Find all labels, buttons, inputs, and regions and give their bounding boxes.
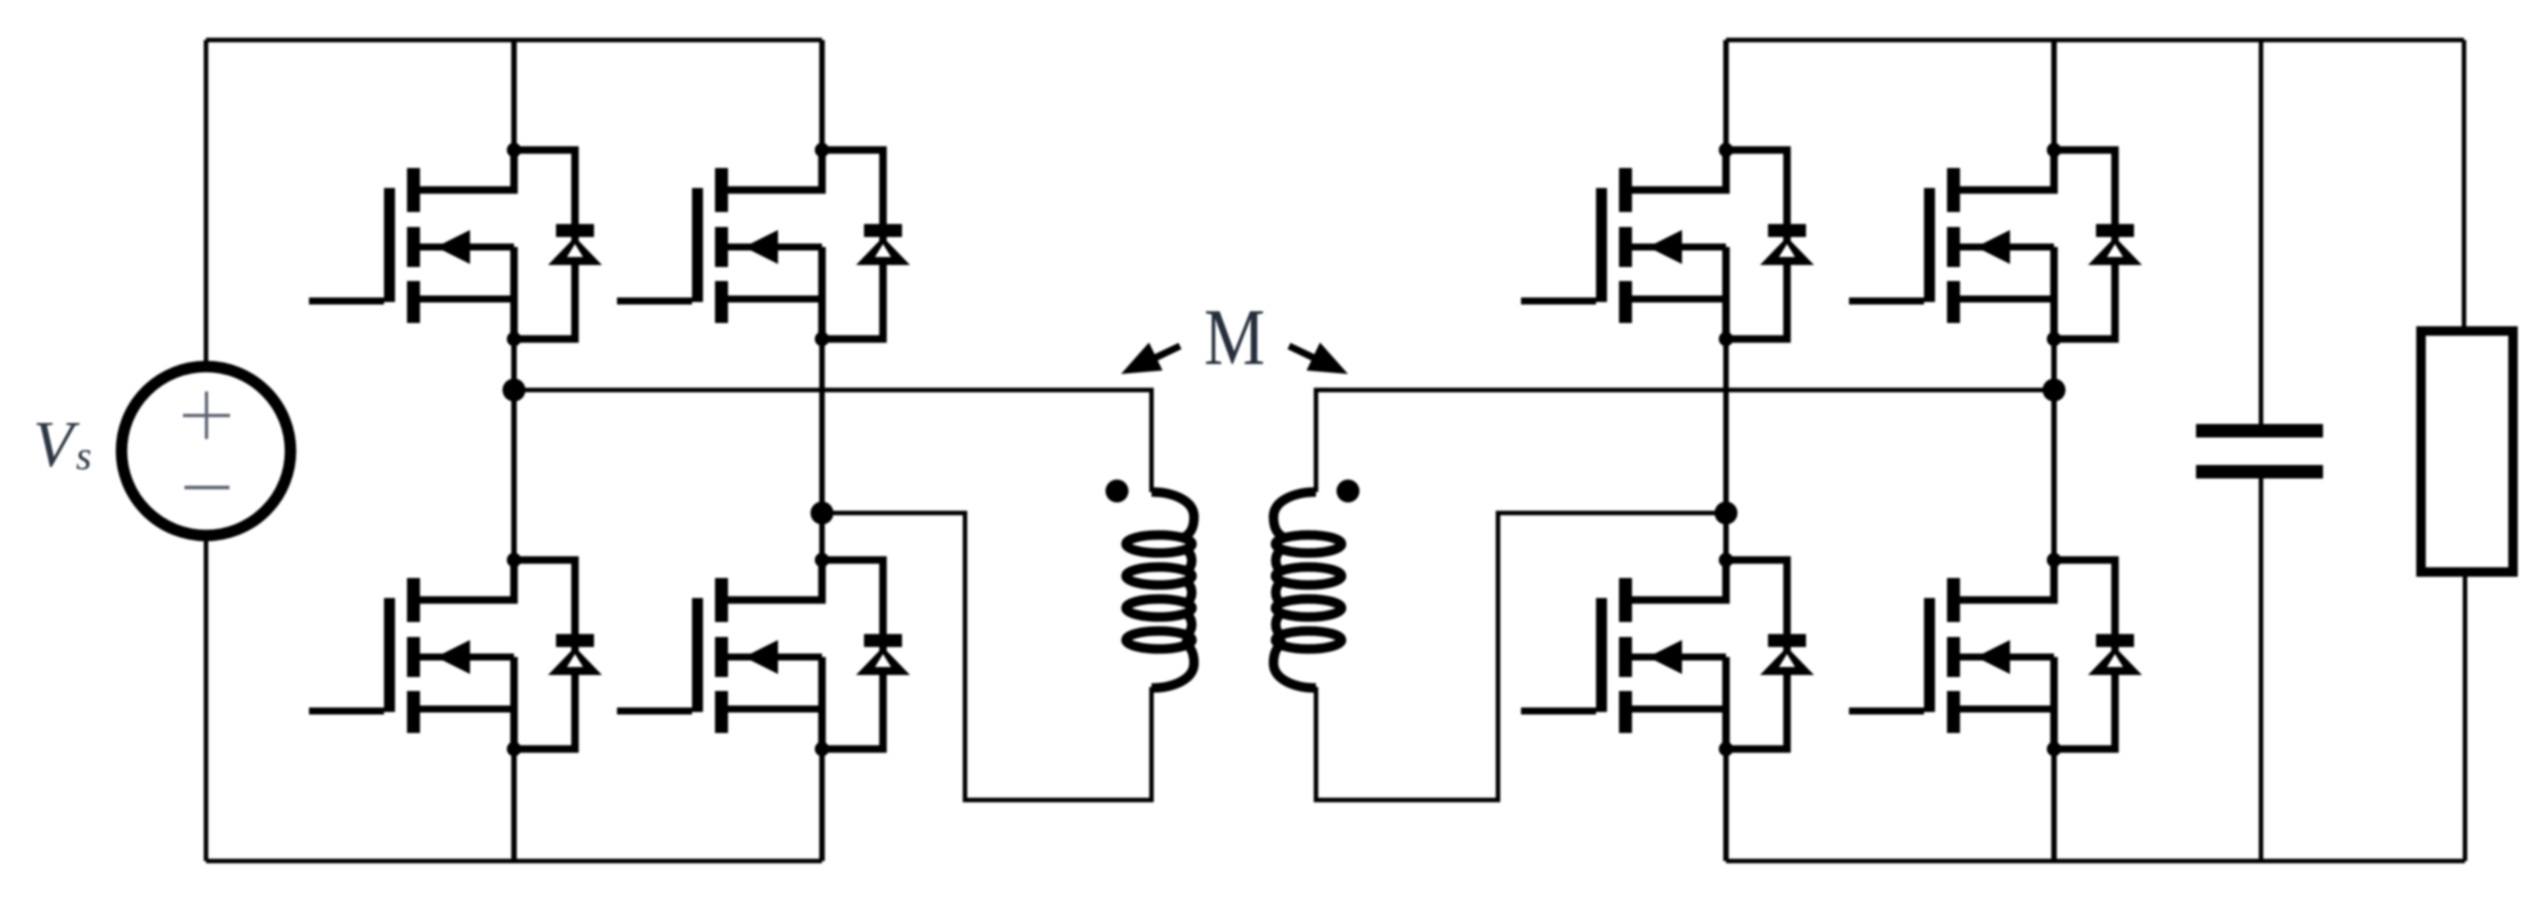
plus sign [183, 392, 230, 440]
transistor Q5 (right bridge, top-left) with body diode D5 [1521, 143, 1814, 346]
wire leg4 bottom stub [2051, 749, 2057, 861]
wire capacitor top stub [2259, 40, 2264, 424]
polarity dot primary [1106, 480, 1129, 503]
transistor Q6 (right bridge, top-right) with body diode D6 [1849, 143, 2142, 346]
polarity dot secondary [1337, 480, 1360, 503]
transistor Q7 (right bridge, bottom-left) with body diode D7 [1521, 553, 1814, 756]
inductor L1 (primary coil) [1126, 492, 1194, 688]
svg-text:M: M [1204, 294, 1265, 382]
transistor Q4 (left bridge, bottom-right) with body diode D4 [617, 553, 910, 756]
wire leg3 mid [1723, 339, 1729, 560]
wire right top rail [1726, 38, 2464, 43]
wire node A to primary top [514, 390, 1152, 492]
wire node B to primary bottom [822, 513, 1152, 800]
wire load top stub [2462, 40, 2467, 331]
wire left bottom rail [206, 859, 822, 864]
capacitor C (output filter) top plate [2196, 424, 2323, 438]
transistor Q3 (left bridge, bottom-left) with body diode D3 [309, 553, 602, 756]
wire leg1 mid [511, 339, 517, 560]
wire capacitor bottom stub [2259, 478, 2264, 861]
wire leg4 top stub [2051, 40, 2057, 150]
wire leg4 mid [2051, 339, 2057, 560]
transistor Q1 (left bridge, top-left) with body diode D1 [309, 143, 602, 346]
minus sign [185, 486, 230, 490]
wire leg2 top stub [819, 40, 825, 150]
wire leg1 bottom stub [511, 749, 517, 861]
mutual arrow right [1289, 346, 1317, 359]
transistor Q2 (left bridge, top-right) with body diode D2 [617, 143, 910, 346]
wire leg1 top stub [511, 40, 517, 150]
wire secondary top to node D [1316, 390, 2054, 492]
node C (leg3 midpoint junction) [1715, 502, 1738, 525]
node A (leg1 midpoint junction) [503, 379, 526, 402]
wire load bottom stub [2463, 572, 2468, 861]
svg-text:s: s [76, 433, 92, 478]
inductor L2 (secondary coil) [1274, 492, 1342, 688]
wire left source to bottom rail [204, 539, 209, 861]
svg-text:V: V [33, 408, 80, 481]
wire leg3 top stub [1723, 40, 1729, 150]
node D (leg4 midpoint junction) [2043, 379, 2066, 402]
transistor Q8 (right bridge, bottom-right) with body diode D8 [1849, 553, 2142, 756]
voltage source Vs [122, 367, 291, 536]
wire right bottom rail [1726, 859, 2465, 864]
capacitor C bottom plate [2196, 465, 2323, 479]
wire left source drop [204, 40, 209, 363]
wire leg2 bottom stub [819, 749, 825, 861]
wire leg3 bottom stub [1723, 749, 1729, 861]
wire left top rail [206, 38, 822, 43]
resistor R (load) [2421, 331, 2513, 572]
wire leg2 mid [819, 339, 825, 560]
wire secondary bottom to node C [1316, 513, 1726, 800]
node B (leg2 midpoint junction) [811, 502, 834, 525]
mutual arrow left [1152, 346, 1180, 359]
